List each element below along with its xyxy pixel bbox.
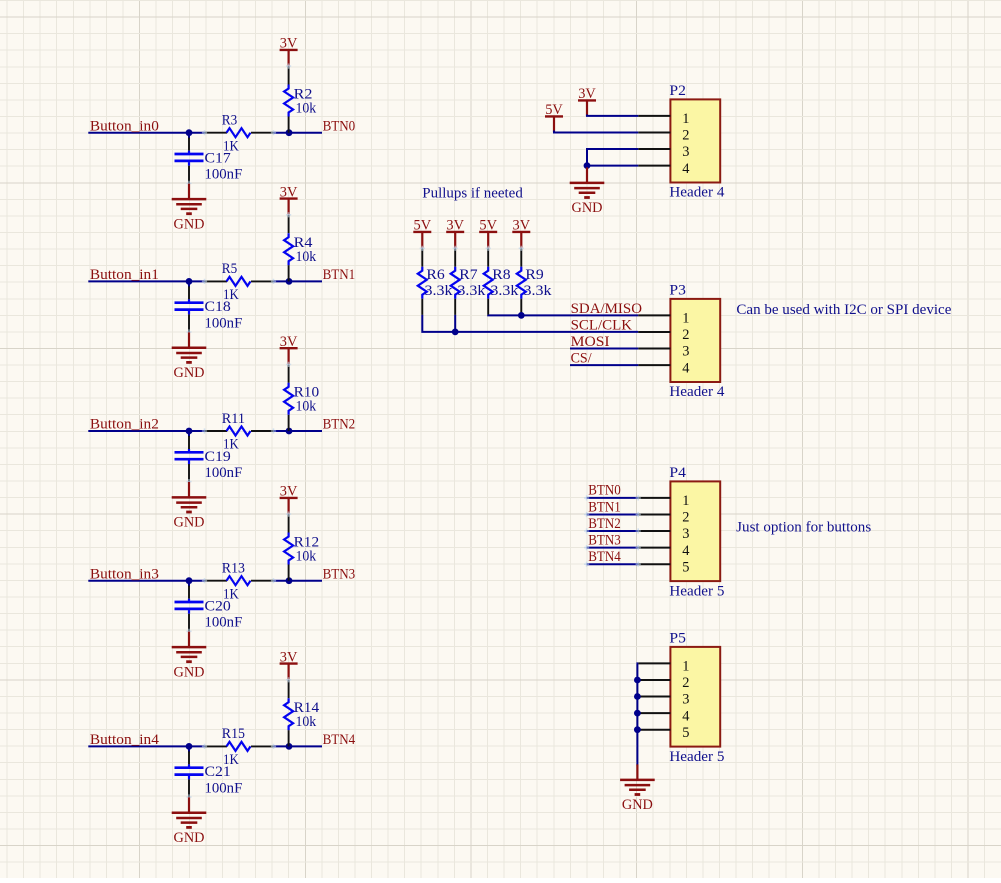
- svg-text:P5: P5: [669, 631, 686, 647]
- svg-text:BTN1: BTN1: [323, 267, 356, 283]
- svg-text:3: 3: [682, 344, 689, 360]
- svg-text:3V: 3V: [280, 334, 298, 350]
- svg-text:3: 3: [682, 526, 689, 542]
- junction P5 pin 5: [634, 726, 641, 733]
- P5 pin 1 lead: [638, 662, 670, 664]
- svg-text:1: 1: [682, 111, 689, 127]
- svg-text:Just option for buttons: Just option for buttons: [736, 519, 871, 535]
- svg-text:Button_in3: Button_in3: [90, 566, 159, 582]
- wire P2 pin3 to GND rail: [587, 149, 638, 166]
- svg-text:SDA/MISO: SDA/MISO: [571, 301, 642, 317]
- resistor R5: [202, 277, 276, 286]
- resistor R12: [284, 512, 293, 581]
- svg-text:100nF: 100nF: [205, 615, 243, 631]
- svg-text:Pullups if neeted: Pullups if neeted: [422, 185, 523, 201]
- resistor R8: [484, 246, 493, 315]
- svg-text:2: 2: [682, 510, 689, 526]
- wire net Button_in3 horizontal: [88, 580, 204, 582]
- capacitor C20: [175, 581, 204, 634]
- resistor R6: [418, 246, 427, 315]
- capacitor C19: [175, 431, 204, 484]
- P5 pin 5 lead: [638, 729, 670, 731]
- svg-text:BTN2: BTN2: [588, 516, 621, 532]
- svg-text:3.3k: 3.3k: [490, 283, 519, 299]
- ground row 4: [172, 797, 207, 846]
- junction at BTN1 node: [286, 278, 293, 285]
- ground at P2: [570, 167, 605, 216]
- junction at C tap row 2: [186, 428, 193, 435]
- resistor R4: [284, 212, 293, 281]
- svg-text:3V: 3V: [280, 36, 298, 52]
- junction P2 GND rail: [584, 162, 591, 169]
- capacitor C17: [175, 133, 204, 186]
- svg-text:3.3k: 3.3k: [425, 283, 454, 299]
- resistor R7: [451, 246, 460, 315]
- svg-text:P3: P3: [669, 283, 686, 299]
- svg-text:3V: 3V: [280, 184, 298, 200]
- svg-text:R11: R11: [222, 411, 245, 427]
- svg-text:GND: GND: [174, 664, 205, 680]
- svg-text:3V: 3V: [578, 86, 596, 102]
- svg-text:Button_in1: Button_in1: [90, 267, 159, 283]
- svg-text:GND: GND: [174, 365, 205, 381]
- wire P5 bus to GND: [636, 663, 639, 765]
- svg-text:R8: R8: [492, 267, 510, 283]
- svg-text:5: 5: [682, 725, 689, 741]
- power port 3V row 0: [280, 36, 298, 66]
- svg-text:100nF: 100nF: [205, 315, 243, 331]
- P5 pin 2 lead: [638, 679, 670, 681]
- junction P5 pin 3: [634, 693, 641, 700]
- svg-text:100nF: 100nF: [205, 167, 243, 183]
- wire R8 down to SDA/MISO rail: [488, 314, 638, 317]
- wire net Button_in0 horizontal: [88, 132, 204, 134]
- svg-text:5: 5: [682, 559, 689, 575]
- resistor R11: [202, 427, 276, 436]
- wire R6 down to SCL/CLK rail: [422, 315, 638, 332]
- power port 3V at P2.1: [578, 86, 596, 116]
- svg-text:5V: 5V: [545, 102, 563, 118]
- P3 pin 3 lead: [638, 348, 670, 350]
- ground row 2: [172, 482, 207, 531]
- wire R to BTN3 node: [274, 580, 323, 582]
- resistor R14: [284, 677, 293, 746]
- svg-text:BTN3: BTN3: [588, 532, 621, 548]
- wire net BTN1 to P4 pin 2: [587, 514, 639, 516]
- wire net Button_in2 horizontal: [88, 430, 204, 432]
- junction at C tap row 0: [186, 129, 193, 136]
- svg-text:Button_in4: Button_in4: [90, 732, 160, 748]
- junction at BTN0 node: [286, 129, 293, 136]
- connector P5 (Header 5): [670, 647, 720, 747]
- P2 pin 3 lead: [638, 148, 670, 150]
- wire 5V to P2 pin2: [554, 131, 638, 133]
- wire R to BTN4 node: [274, 745, 323, 747]
- svg-text:Header 4: Header 4: [669, 384, 725, 400]
- svg-text:10k: 10k: [296, 399, 317, 415]
- P4 pin 3 lead: [638, 530, 670, 532]
- power port 5V above R6: [413, 218, 431, 248]
- wire P2 pin4 to GND rail: [587, 165, 638, 167]
- svg-text:SCL/CLK: SCL/CLK: [571, 317, 633, 333]
- junction R7/SCL: [452, 329, 459, 336]
- wire net CS/: [570, 364, 638, 366]
- svg-text:BTN4: BTN4: [588, 549, 621, 565]
- connector P4 (Header 5): [670, 481, 720, 581]
- svg-text:1: 1: [682, 493, 689, 509]
- P4 pin 4 lead: [638, 547, 670, 549]
- svg-text:4: 4: [682, 360, 689, 376]
- junction at C tap row 1: [186, 278, 193, 285]
- svg-text:BTN2: BTN2: [323, 417, 356, 433]
- svg-text:BTN0: BTN0: [323, 118, 356, 134]
- svg-text:1: 1: [682, 659, 689, 675]
- junction at C tap row 3: [186, 577, 193, 584]
- svg-text:3: 3: [682, 144, 689, 160]
- connector P2 (Header 4): [670, 99, 720, 182]
- svg-text:4: 4: [682, 708, 689, 724]
- svg-text:Header 5: Header 5: [669, 749, 724, 765]
- resistor R10: [284, 362, 293, 431]
- P5 pin 4 lead: [638, 712, 670, 714]
- svg-text:3V: 3V: [280, 649, 298, 665]
- svg-text:GND: GND: [572, 200, 603, 216]
- svg-text:R15: R15: [222, 726, 245, 742]
- svg-text:C20: C20: [205, 599, 231, 615]
- svg-text:R3: R3: [222, 113, 237, 129]
- svg-text:GND: GND: [174, 216, 205, 232]
- svg-text:R6: R6: [426, 267, 444, 283]
- wire net Button_in1 horizontal: [88, 280, 204, 282]
- ground at P5: [620, 764, 655, 813]
- P5 pin 3 lead: [638, 696, 670, 698]
- svg-text:P2: P2: [669, 83, 686, 99]
- svg-text:R7: R7: [459, 267, 477, 283]
- wire 3V to P2 pin1: [587, 115, 638, 116]
- svg-text:C17: C17: [205, 151, 231, 167]
- connector P3 (Header 4): [670, 299, 720, 382]
- resistor R13: [202, 576, 276, 585]
- junction P5 pin 4: [634, 710, 641, 717]
- svg-text:R9: R9: [525, 267, 543, 283]
- svg-text:BTN1: BTN1: [588, 499, 621, 515]
- capacitor C18: [175, 281, 204, 334]
- P4 pin 5 lead: [638, 563, 670, 565]
- resistor R15: [202, 742, 276, 751]
- wire R to BTN1 node: [274, 280, 323, 282]
- svg-text:3: 3: [682, 692, 689, 708]
- junction at C tap row 4: [186, 743, 193, 750]
- P4 pin 2 lead: [638, 514, 670, 516]
- svg-text:10k: 10k: [296, 714, 317, 730]
- svg-text:5V: 5V: [414, 218, 432, 234]
- P3 pin 2 lead: [638, 331, 670, 333]
- svg-text:Button_in0: Button_in0: [90, 118, 159, 134]
- power port 3V row 3: [280, 484, 298, 514]
- junction at BTN2 node: [286, 428, 293, 435]
- svg-text:GND: GND: [174, 830, 205, 846]
- svg-text:2: 2: [682, 128, 689, 144]
- svg-text:10k: 10k: [296, 548, 317, 564]
- svg-text:R13: R13: [222, 561, 245, 577]
- P4 pin 1 lead: [638, 497, 670, 499]
- svg-text:Button_in2: Button_in2: [90, 417, 159, 433]
- svg-text:BTN0: BTN0: [588, 483, 621, 499]
- svg-text:100nF: 100nF: [205, 465, 243, 481]
- wire R9 down to SDA/MISO rail: [520, 314, 522, 317]
- P3 pin 4 lead: [638, 364, 670, 366]
- resistor R9: [517, 246, 526, 315]
- power port 3V above R7: [446, 218, 464, 248]
- svg-text:Can be used with I2C or SPI de: Can be used with I2C or SPI device: [736, 302, 951, 318]
- P2 pin 2 lead: [638, 132, 670, 134]
- svg-text:R5: R5: [222, 261, 237, 277]
- svg-text:GND: GND: [174, 515, 205, 531]
- wire net BTN2 to P4 pin 3: [587, 530, 639, 532]
- wire net BTN3 to P4 pin 4: [587, 547, 639, 549]
- junction P5 pin 2: [634, 677, 641, 684]
- wire net BTN0 to P4 pin 1: [587, 497, 639, 499]
- P3 pin 1 lead: [638, 314, 670, 316]
- svg-text:5V: 5V: [479, 218, 497, 234]
- svg-text:3V: 3V: [446, 218, 464, 234]
- svg-text:3.3k: 3.3k: [524, 283, 553, 299]
- svg-text:Header 4: Header 4: [669, 185, 725, 201]
- svg-text:3.3k: 3.3k: [457, 283, 486, 299]
- wire net BTN4 to P4 pin 5: [587, 563, 639, 565]
- svg-text:1: 1: [682, 311, 689, 327]
- svg-text:BTN3: BTN3: [323, 566, 356, 582]
- svg-text:P4: P4: [669, 465, 686, 481]
- junction R9/SDA: [518, 312, 525, 319]
- junction at BTN4 node: [286, 743, 293, 750]
- resistor R2: [284, 64, 293, 133]
- ground row 1: [172, 332, 207, 381]
- power port 3V row 1: [280, 184, 298, 214]
- power port 3V above R9: [512, 218, 530, 248]
- svg-text:10k: 10k: [296, 100, 317, 116]
- svg-text:2: 2: [682, 675, 689, 691]
- svg-text:C18: C18: [205, 299, 231, 315]
- power port 3V row 4: [280, 649, 298, 679]
- capacitor C21: [175, 746, 204, 799]
- resistor R3: [202, 128, 276, 137]
- wire net MOSI: [570, 348, 638, 350]
- wire R7 down to SCL/CLK rail: [454, 315, 456, 332]
- wire net Button_in4 horizontal: [88, 745, 204, 747]
- svg-text:3V: 3V: [513, 218, 531, 234]
- svg-text:4: 4: [682, 543, 689, 559]
- ground row 3: [172, 632, 207, 681]
- ground row 0: [172, 184, 207, 233]
- svg-text:C21: C21: [205, 764, 231, 780]
- svg-text:3V: 3V: [280, 484, 298, 500]
- svg-text:GND: GND: [622, 797, 653, 813]
- power port 5V at P2.2: [545, 102, 563, 132]
- svg-text:Header 5: Header 5: [669, 583, 724, 599]
- junction at BTN3 node: [286, 577, 293, 584]
- P2 pin 4 lead: [638, 165, 670, 167]
- wire R to BTN0 node: [274, 132, 323, 134]
- power port 5V above R8: [479, 218, 497, 248]
- svg-text:C19: C19: [205, 449, 231, 465]
- svg-text:10k: 10k: [296, 249, 317, 265]
- P2 pin 1 lead: [638, 115, 670, 117]
- power port 3V row 2: [280, 334, 298, 364]
- svg-text:BTN4: BTN4: [323, 732, 356, 748]
- svg-text:4: 4: [682, 161, 689, 177]
- svg-text:100nF: 100nF: [205, 780, 243, 796]
- wire R to BTN2 node: [274, 430, 323, 432]
- svg-text:2: 2: [682, 327, 689, 343]
